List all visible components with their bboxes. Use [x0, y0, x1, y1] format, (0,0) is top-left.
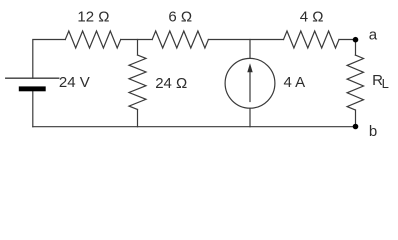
wire 4 ohm to node a [339, 39, 356, 41]
wire top-left corner segment [33, 40, 66, 79]
current source circle [225, 58, 275, 108]
resistor 4 ohm zigzag [284, 31, 340, 48]
battery 24V long thin plate [6, 77, 59, 79]
wire top rail to current source [249, 40, 251, 59]
current source arrowhead [247, 63, 252, 72]
wire current source to bottom rail [249, 108, 251, 127]
wire between 12 ohm and 6 ohm [121, 39, 153, 41]
wire RL to node b [355, 110, 357, 127]
svg-text:4 A: 4 A [284, 74, 306, 91]
svg-text:24 V: 24 V [59, 74, 90, 91]
svg-text:a: a [369, 27, 378, 44]
resistor RL vertical zigzag [347, 55, 363, 110]
wire between 6 ohm and 4 ohm [208, 39, 283, 41]
current source arrow shaft [249, 67, 251, 102]
resistor 24 ohm vertical zigzag [129, 55, 146, 110]
node a junction dot [353, 37, 359, 43]
node b junction dot [353, 124, 359, 130]
bottom rail wire [33, 126, 356, 128]
svg-text:RL: RL [372, 72, 389, 91]
svg-text:4 Ω: 4 Ω [300, 8, 324, 25]
svg-text:b: b [369, 123, 377, 140]
resistor 6 ohm zigzag [152, 31, 208, 48]
wire node a to RL resistor [355, 40, 357, 56]
svg-text:12 Ω: 12 Ω [77, 8, 109, 25]
wire top rail to 24 ohm resistor [137, 40, 139, 56]
battery 24V short thick plate [19, 86, 46, 91]
svg-text:24 Ω: 24 Ω [155, 75, 187, 92]
wire 24 ohm to bottom rail [137, 110, 139, 127]
svg-text:6 Ω: 6 Ω [168, 8, 192, 25]
wire battery negative to bottom rail [32, 91, 34, 126]
resistor 12 ohm zigzag [65, 31, 120, 48]
